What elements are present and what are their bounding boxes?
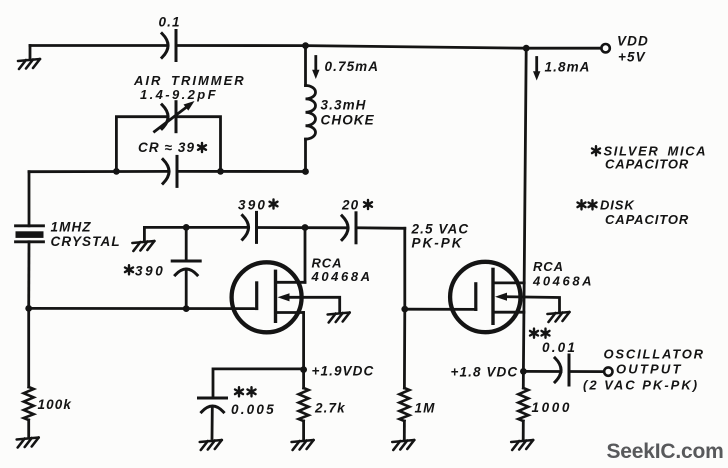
svg-text:(2 VAC PK-PK): (2 VAC PK-PK) [583,378,699,393]
note silver mica capacitor [592,144,707,172]
svg-text:20: 20 [341,198,359,213]
label RCA 40468A Q1 [311,256,373,285]
svg-text:3.3mH: 3.3mH [321,98,367,113]
terminal VDD [601,44,609,52]
svg-text:390: 390 [135,264,165,279]
svg-text:CAPACITOR: CAPACITOR [605,212,689,227]
inductor 3.3mH choke [306,46,316,172]
svg-text:1M: 1M [415,401,436,416]
wire bypass branch [213,369,304,398]
svg-text:2.7k: 2.7k [314,401,346,416]
node choke bottom [302,168,309,175]
node box right [217,168,224,175]
svg-text:1MHZ: 1MHZ [51,220,92,235]
svg-text:RCA: RCA [533,259,564,274]
svg-text:2.5 VAC: 2.5 VAC [411,222,470,237]
capacitor ** 0.005 [199,398,227,439]
arrow 0.75mA [312,57,319,80]
capacitor C 0.1 [162,31,176,61]
svg-text:VDD: VDD [617,34,649,49]
svg-text:+1.9VDC: +1.9VDC [312,364,375,379]
svg-text:CRYSTAL: CRYSTAL [51,234,121,249]
svg-text:SeekIC.com: SeekIC.com [607,440,724,463]
wire bias mid line [144,226,404,230]
wire Q2 drain vdd [523,48,526,371]
svg-text:AIR TRIMMER: AIR TRIMMER [133,73,246,88]
label ** 0.01 [530,329,577,355]
node +1.9VDC [300,366,307,373]
ground under 1000 [511,440,533,450]
label ** 0.005 [231,387,276,417]
label VDD +5V [617,34,649,65]
resistor R 1000 [518,371,528,440]
svg-text:40468A: 40468A [532,274,594,289]
capacitor 390* [243,212,257,242]
trimmer capacitor air trimmer [155,101,195,132]
ground under 2.7k [292,440,314,450]
node drain Q1 top [302,224,309,231]
terminal oscillator output [604,367,612,375]
capacitor *390 shunt [172,227,200,308]
wire gate line Q1 [29,307,257,310]
svg-text:0.005: 0.005 [231,402,276,417]
svg-text:100k: 100k [38,397,73,412]
svg-text:40468A: 40468A [311,269,373,284]
resistor R 2.7k [299,370,309,441]
svg-text:OUTPUT: OUTPUT [616,362,683,377]
transistor Q2 RCA 40468A [450,262,559,332]
wire bias bottom line [29,170,306,173]
node box left [113,168,120,175]
svg-text:PK-PK: PK-PK [412,236,464,251]
capacitor CR 39 [163,156,177,186]
ground top-left [18,46,40,70]
note disk capacitor [578,198,690,228]
label 1MHZ CRYSTAL [51,220,121,250]
wire output [523,370,604,373]
label 390* [238,198,278,213]
node top choke [302,42,309,49]
svg-text:OSCILLATOR: OSCILLATOR [604,347,705,362]
node 390 top [183,224,190,231]
ground under 100k [17,438,39,448]
wire top rail right [176,46,601,49]
crystal Y1 1MHZ [16,226,44,242]
label CR=39* [138,140,206,155]
node gate 390 [183,305,190,312]
svg-text:CHOKE: CHOKE [321,113,375,128]
svg-text:CR ≈ 39: CR ≈ 39 [138,140,195,155]
resistor R 100k [24,308,34,438]
capacitor ** 0.01 [555,355,569,385]
ground Q2 substrate [548,312,570,322]
svg-text:0.01: 0.01 [542,340,577,355]
node gate line left [25,305,32,312]
wire crystal top [28,172,31,226]
ground Q1 substrate [328,313,350,323]
label 3.3mH CHOKE [321,98,375,128]
arrow 1.8mA [533,58,540,81]
resistor R 1M [399,309,409,440]
label *390 [125,264,165,279]
label 20* [341,198,372,213]
wire gate line Q2 [405,308,476,311]
wire Q1 source down [302,313,305,370]
node Q2 gate [401,306,408,313]
wire parallel box [116,117,220,172]
label AIR TRIMMER 1.4-9.2pF [133,73,246,102]
ground under 1M [392,440,414,450]
svg-text:0.75mA: 0.75mA [325,59,380,74]
transistor Q1 RCA 40468A [232,262,340,332]
wire top rail left [30,44,168,47]
wire crystal bottom [27,242,30,309]
wire Q1 drain [304,228,307,283]
ground under 0.005 [200,440,222,450]
capacitor 20* [342,213,356,243]
svg-text:1000: 1000 [532,400,572,415]
svg-text:+5V: +5V [618,50,646,65]
svg-text:390: 390 [238,198,267,213]
node top vdd branch [523,45,530,52]
svg-text:1.8mA: 1.8mA [545,60,591,75]
svg-text:CAPACITOR: CAPACITOR [605,157,689,172]
node +1.8VDC [520,368,527,375]
svg-text:1.4-9.2pF: 1.4-9.2pF [140,87,218,102]
ground bias line [132,227,154,251]
label RCA 40468A Q2 [532,259,594,289]
svg-text:+1.8 VDC: +1.8 VDC [451,365,519,380]
label OSCILLATOR OUTPUT [583,347,705,393]
wire Q2 gate drop [403,228,406,309]
svg-text:DISK: DISK [600,198,635,213]
label 2.5 VAC PK-PK [411,222,470,251]
svg-text:0.1: 0.1 [159,15,181,30]
